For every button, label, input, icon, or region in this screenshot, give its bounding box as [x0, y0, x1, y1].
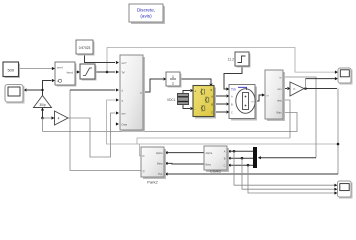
- arrow into motor A: [226, 94, 229, 97]
- wire tap ib to scope3: [242, 158, 335, 189]
- arrow into unit delay: [163, 77, 166, 80]
- svg-text:11.2: 11.2: [228, 58, 234, 62]
- svg-text:Clark2: Clark2: [210, 169, 222, 174]
- svg-text:Beta: Beta: [206, 162, 212, 166]
- svg-text:fwnd: fwnd: [67, 71, 74, 75]
- svg-text:The: The: [158, 172, 163, 176]
- arrow controller in2: [116, 70, 119, 73]
- arrow into bridge plus: [190, 89, 193, 92]
- arrow into Park2 The (left pointing): [165, 172, 168, 175]
- wire gain2 down to theta lower: [337, 89, 339, 175]
- arrow controller in1: [116, 61, 119, 64]
- wire gain1 input from wm loop: [42, 108, 44, 119]
- arrow controller in3: [116, 88, 119, 91]
- saturation block: [80, 64, 97, 81]
- gain2 triangle right: [290, 82, 304, 96]
- svg-text:z: z: [172, 81, 174, 86]
- PMSM motor block: [229, 85, 257, 121]
- arrow into speed-controller in2: [52, 79, 55, 82]
- arrow into Park2 Beta (left pointing): [165, 162, 168, 165]
- universal bridge (yellow): [193, 86, 216, 119]
- svg-text:A: A: [231, 94, 233, 98]
- svg-text:B: B: [231, 102, 233, 106]
- arrow into motor Tm: [226, 87, 229, 90]
- arrow controller in6: [116, 122, 119, 125]
- node gain2 branch: [304, 87, 307, 90]
- unit delay 1/z: [166, 72, 182, 88]
- wire gain2 out to right: [304, 88, 337, 90]
- arrow into scope1 in2: [335, 77, 338, 80]
- wire gain2 branch to scope1 in2: [305, 79, 307, 89]
- svg-text:Park2: Park2: [147, 180, 158, 185]
- wire bridge A to motor A: [214, 95, 226, 97]
- bus selector block: [265, 70, 285, 121]
- arrow into bus selector: [262, 93, 265, 96]
- scope2 rpm: [5, 85, 25, 104]
- svg-text:wm*: wm*: [122, 61, 127, 65]
- arrow into scope2 (left pointing): [24, 88, 27, 91]
- arrow into scope3 in1: [334, 184, 337, 187]
- svg-text:wm: wm: [122, 112, 126, 115]
- wire Park2 Q out to controller in3 loop: [70, 90, 141, 171]
- svg-text:0.97023: 0.97023: [79, 46, 91, 50]
- arrow into gain1 base (up): [41, 108, 44, 111]
- Clarke2 block: [204, 146, 229, 174]
- wire theta into Park2 The: [168, 173, 339, 175]
- svg-text:wref: wref: [57, 65, 63, 69]
- controller subsystem block: [120, 55, 145, 132]
- constant 500: [3, 62, 20, 78]
- wire wm to speed-controller in2: [43, 81, 52, 91]
- svg-text:VDC1: VDC1: [167, 98, 176, 102]
- svg-text:-: -: [194, 107, 195, 111]
- Park2 block: [141, 147, 166, 185]
- svg-text:(avis): (avis): [140, 14, 152, 19]
- svg-text:teta: teta: [277, 98, 282, 102]
- svg-text:B: B: [211, 103, 213, 107]
- wire demux out1 to Clarke2 A: [231, 150, 254, 152]
- svg-text:wm: wm: [277, 88, 281, 91]
- svg-text:D: D: [143, 154, 145, 158]
- svg-text:+: +: [194, 89, 196, 93]
- arrow into demux (left pointing): [258, 156, 261, 159]
- scope1 top right: [338, 68, 353, 85]
- arrow into motor B: [226, 102, 229, 105]
- wire Clarke2 Alpha to Park2 Alpha: [168, 152, 205, 154]
- wire VDC plus to bridge: [183, 91, 190, 94]
- wire is to demux: [283, 77, 316, 158]
- scope3 bottom right: [338, 181, 353, 199]
- node saturation-out junction: [106, 71, 109, 74]
- speed controller block: [55, 62, 77, 87]
- svg-text:30/p: 30/p: [39, 103, 45, 107]
- svg-text:C: C: [211, 111, 213, 115]
- wire demux out3 to Clarke2 C: [231, 164, 254, 166]
- wire tap ic to scope3: [248, 165, 335, 193]
- arrow into motor C: [226, 110, 229, 113]
- svg-text:C: C: [231, 110, 233, 114]
- demux bar: [253, 147, 257, 168]
- wire wm feedback loop long: [42, 118, 44, 132]
- svg-text:K: K: [293, 87, 295, 91]
- arrow into bridge minus: [190, 107, 193, 110]
- svg-text:Alpha: Alpha: [156, 151, 163, 155]
- arrow into bridge gate (down): [209, 84, 212, 87]
- step block 11.2: [228, 52, 251, 68]
- arrow controller in4: [116, 98, 119, 101]
- node tap ib: [241, 157, 244, 160]
- svg-text:Beta: Beta: [157, 162, 163, 166]
- svg-text:m: m: [251, 100, 253, 103]
- powergui block: [129, 4, 165, 24]
- arrow into scope1 in1: [335, 71, 338, 74]
- arrow into scope3 in3: [334, 191, 337, 194]
- wire demux out2 to Clarke2 B: [231, 157, 254, 159]
- wire unit delay out to bridge gate: [180, 79, 211, 83]
- svg-text:Q: Q: [143, 169, 145, 173]
- wire motor m to bus selector: [255, 95, 262, 101]
- wire top long from saturation to scope1: [107, 48, 336, 73]
- wire Clarke2 Beta to Park2 Beta: [168, 162, 205, 165]
- gain1 rad2rpm triangle up: [34, 96, 52, 108]
- svg-text:A: A: [224, 150, 226, 154]
- arrow into Clarke2 A (left pointing): [228, 150, 231, 153]
- wire speed-controller out to saturation in: [75, 71, 77, 73]
- svg-text:m: m: [267, 94, 269, 97]
- arrow into gain2: [287, 87, 290, 90]
- svg-text:A: A: [211, 95, 213, 99]
- node gain1-scope junction: [41, 89, 43, 91]
- wire VDC minus to bridge: [183, 105, 190, 109]
- wire bridge B to motor B: [214, 103, 226, 105]
- wire bus teta down loop: [283, 100, 290, 138]
- arrow into speed-controller in1: [52, 67, 55, 70]
- wire wm loop to gain3 input: [43, 117, 52, 119]
- svg-text:Alpha: Alpha: [206, 151, 213, 155]
- constant 0.97023: [76, 40, 95, 56]
- svg-text:Te*: Te*: [122, 70, 126, 74]
- arrow into Park2 Alpha (left pointing): [165, 151, 168, 154]
- svg-text:Discrete,: Discrete,: [137, 8, 155, 13]
- arrow into saturation: [77, 70, 80, 73]
- svg-text:C: C: [224, 163, 226, 167]
- wire constant500 to speed-controller in1: [20, 68, 53, 70]
- arrow into gain3: [51, 116, 54, 119]
- wire tap ia to scope3: [234, 151, 335, 185]
- VDC source: [167, 94, 189, 105]
- svg-text:Was: Was: [276, 110, 282, 114]
- node wm branch junction: [41, 117, 44, 120]
- wire bridge C to motor C: [214, 111, 226, 113]
- arrow into Clarke2 B (left pointing): [228, 157, 231, 160]
- node tap ia: [233, 150, 236, 153]
- arrow controller in5: [116, 111, 119, 114]
- svg-text:B: B: [224, 156, 226, 160]
- wire Park2 D out to controller in4 loop: [140, 144, 142, 156]
- wire constant0.97 to controller in1: [85, 54, 116, 63]
- node tap ic: [247, 164, 250, 167]
- wire gain1 apex to scope2: [27, 90, 43, 96]
- wire step to motor Tm: [224, 66, 242, 89]
- gain3 triangle right: [55, 111, 69, 125]
- svg-text:Tm: Tm: [231, 88, 236, 92]
- node theta lower junction: [337, 143, 340, 146]
- arrow into Clarke2 C (left pointing): [228, 164, 231, 167]
- arrow into scope3 in2: [334, 188, 337, 191]
- wire saturation out to controller in2: [95, 71, 115, 73]
- svg-text:Data: Data: [122, 122, 128, 126]
- svg-text:500: 500: [7, 67, 14, 72]
- wire gain3 out to controller in5 loop: [68, 113, 115, 157]
- svg-text:4: 4: [58, 117, 60, 121]
- wire controller out to unit delay: [143, 79, 163, 92]
- wire bus wm to gain2: [283, 88, 287, 90]
